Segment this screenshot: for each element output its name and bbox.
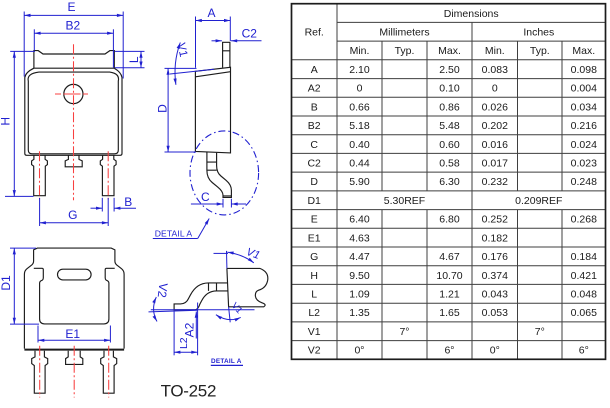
svg-text:L2: L2 bbox=[178, 337, 190, 349]
front view right lead bbox=[100, 155, 116, 195]
dimension C bbox=[191, 190, 246, 208]
svg-text:5.18: 5.18 bbox=[349, 120, 370, 132]
svg-text:7°: 7° bbox=[399, 326, 409, 338]
svg-text:1.35: 1.35 bbox=[349, 307, 370, 319]
front view left lead bbox=[32, 155, 48, 195]
svg-text:G: G bbox=[68, 208, 77, 222]
front view body inner outline bbox=[28, 72, 118, 154]
svg-text:E: E bbox=[311, 214, 318, 226]
svg-text:0.268: 0.268 bbox=[571, 214, 597, 226]
front view hole horizontal centerline bbox=[55, 93, 88, 95]
svg-text:Min.: Min. bbox=[350, 45, 370, 57]
svg-text:0.024: 0.024 bbox=[571, 139, 597, 151]
svg-text:B2: B2 bbox=[308, 120, 321, 132]
svg-text:0.098: 0.098 bbox=[571, 64, 597, 76]
svg-text:0.065: 0.065 bbox=[571, 307, 597, 319]
back view body outer outline bbox=[24, 248, 124, 349]
svg-text:5.48: 5.48 bbox=[439, 120, 460, 132]
svg-text:1.65: 1.65 bbox=[439, 307, 460, 319]
svg-text:TO-252: TO-252 bbox=[161, 381, 217, 400]
svg-text:Ref.: Ref. bbox=[305, 27, 324, 39]
svg-text:Min.: Min. bbox=[485, 45, 505, 57]
svg-text:L: L bbox=[127, 56, 141, 63]
svg-text:D1: D1 bbox=[307, 195, 321, 207]
svg-text:5.90: 5.90 bbox=[349, 176, 370, 188]
small DETAIL A label bbox=[211, 358, 243, 366]
dimension B2 bbox=[34, 18, 113, 68]
svg-text:A2: A2 bbox=[308, 83, 321, 95]
svg-text:L: L bbox=[311, 289, 317, 301]
svg-text:DETAIL A: DETAIL A bbox=[155, 229, 193, 239]
svg-text:C2: C2 bbox=[242, 27, 258, 41]
back view bottom edge bbox=[24, 349, 124, 351]
back view left lead bbox=[32, 351, 48, 393]
front view left lead centerline bbox=[39, 151, 41, 199]
svg-text:0.252: 0.252 bbox=[482, 214, 508, 226]
svg-text:0.053: 0.053 bbox=[482, 307, 508, 319]
svg-text:V1: V1 bbox=[308, 326, 321, 338]
back view left lead centerline bbox=[39, 346, 41, 398]
svg-text:A: A bbox=[207, 6, 215, 20]
svg-text:0: 0 bbox=[357, 83, 363, 95]
svg-text:Max.: Max. bbox=[572, 45, 595, 57]
svg-text:0.026: 0.026 bbox=[482, 101, 508, 113]
svg-text:0.017: 0.017 bbox=[482, 158, 508, 170]
back view right lead bbox=[101, 351, 117, 393]
detail seating plane line bbox=[151, 309, 255, 311]
svg-text:D: D bbox=[310, 176, 318, 188]
dimension H bbox=[0, 51, 35, 196]
svg-text:6°: 6° bbox=[444, 345, 454, 357]
back view center lead stub bbox=[66, 351, 83, 365]
svg-text:E1: E1 bbox=[65, 327, 80, 341]
dimension G bbox=[40, 198, 109, 226]
svg-text:C: C bbox=[201, 190, 210, 204]
svg-text:0.048: 0.048 bbox=[571, 289, 597, 301]
svg-text:0.40: 0.40 bbox=[349, 139, 370, 151]
svg-text:0.043: 0.043 bbox=[482, 289, 508, 301]
svg-text:Typ.: Typ. bbox=[395, 45, 415, 57]
svg-text:0.44: 0.44 bbox=[349, 158, 370, 170]
svg-text:Inches: Inches bbox=[523, 27, 554, 39]
svg-text:0.023: 0.023 bbox=[571, 158, 597, 170]
svg-text:V1: V1 bbox=[245, 246, 262, 262]
svg-text:0°: 0° bbox=[354, 345, 364, 357]
angle dimension V1 bottom bbox=[216, 300, 245, 322]
svg-text:G: G bbox=[310, 251, 318, 263]
back view center lead centerline bbox=[73, 346, 75, 398]
svg-text:4.47: 4.47 bbox=[349, 251, 370, 263]
svg-text:0.248: 0.248 bbox=[571, 176, 597, 188]
svg-text:L2: L2 bbox=[308, 307, 320, 319]
dimension B bbox=[91, 195, 137, 212]
svg-text:0.66: 0.66 bbox=[349, 101, 370, 113]
svg-text:0.016: 0.016 bbox=[482, 139, 508, 151]
svg-text:6.80: 6.80 bbox=[439, 214, 460, 226]
dimension E bbox=[24, 0, 123, 78]
svg-text:2.10: 2.10 bbox=[349, 64, 370, 76]
svg-text:0.034: 0.034 bbox=[571, 101, 597, 113]
svg-text:7°: 7° bbox=[535, 326, 545, 338]
svg-text:DETAIL A: DETAIL A bbox=[211, 358, 242, 365]
svg-text:0.182: 0.182 bbox=[482, 232, 508, 244]
side view lead bbox=[207, 152, 232, 198]
svg-text:0.176: 0.176 bbox=[482, 251, 508, 263]
svg-text:4.63: 4.63 bbox=[349, 232, 370, 244]
side view body outline bbox=[195, 67, 230, 153]
front view mounting hole bbox=[64, 84, 83, 103]
svg-text:6.40: 6.40 bbox=[349, 214, 370, 226]
svg-text:0.60: 0.60 bbox=[439, 139, 460, 151]
svg-text:0.202: 0.202 bbox=[482, 120, 508, 132]
side view body chamfer line bbox=[195, 72, 230, 77]
svg-text:A: A bbox=[311, 64, 318, 76]
front view center lead stub bbox=[65, 155, 82, 167]
detail lead outline bbox=[174, 283, 228, 310]
svg-text:6.30: 6.30 bbox=[439, 176, 460, 188]
detail body outline bbox=[227, 268, 268, 306]
svg-text:1.21: 1.21 bbox=[439, 289, 460, 301]
svg-text:Max.: Max. bbox=[438, 45, 461, 57]
svg-text:10.70: 10.70 bbox=[436, 270, 462, 282]
svg-text:6°: 6° bbox=[579, 345, 589, 357]
svg-text:2.50: 2.50 bbox=[439, 64, 460, 76]
angle dimension V1 side view bbox=[170, 42, 214, 85]
svg-text:B2: B2 bbox=[66, 18, 81, 32]
svg-text:Typ.: Typ. bbox=[530, 45, 550, 57]
detail A ellipse bbox=[190, 131, 259, 215]
svg-text:0.58: 0.58 bbox=[439, 158, 460, 170]
back view right lead centerline bbox=[108, 346, 110, 398]
svg-text:V2: V2 bbox=[308, 345, 321, 357]
dimensions table grid bbox=[292, 4, 606, 360]
svg-text:5.30REF: 5.30REF bbox=[384, 195, 425, 207]
svg-text:0.216: 0.216 bbox=[571, 120, 597, 132]
side view tab outline bbox=[223, 42, 230, 67]
svg-text:0.232: 0.232 bbox=[482, 176, 508, 188]
detail A leader arrow bbox=[198, 219, 209, 239]
side view lead bend ticks bbox=[207, 162, 232, 196]
svg-text:0.86: 0.86 bbox=[439, 101, 460, 113]
front view vertical centerline bbox=[73, 44, 75, 200]
back view pad contour bbox=[34, 268, 115, 324]
front view body outer outline bbox=[25, 68, 122, 155]
svg-text:0.421: 0.421 bbox=[571, 270, 597, 282]
svg-text:0.083: 0.083 bbox=[482, 64, 508, 76]
dimension L2 bbox=[174, 303, 198, 356]
svg-text:0°: 0° bbox=[490, 345, 500, 357]
svg-text:D: D bbox=[155, 104, 169, 113]
front view tab outline bbox=[34, 51, 114, 68]
svg-text:0.004: 0.004 bbox=[571, 83, 597, 95]
svg-text:V2: V2 bbox=[155, 282, 171, 299]
DETAIL A label bbox=[153, 229, 198, 239]
dimensions table text bbox=[305, 8, 598, 357]
svg-text:0.184: 0.184 bbox=[571, 251, 597, 263]
svg-text:C2: C2 bbox=[307, 158, 321, 170]
detail lead bend ticks bbox=[209, 283, 217, 291]
dimension A bbox=[196, 6, 231, 68]
svg-text:4.67: 4.67 bbox=[439, 251, 460, 263]
svg-text:0: 0 bbox=[492, 83, 498, 95]
svg-text:0.209REF: 0.209REF bbox=[515, 195, 562, 207]
angle dimension V1 top bbox=[214, 246, 262, 268]
svg-text:A2: A2 bbox=[183, 322, 197, 337]
svg-text:Millimeters: Millimeters bbox=[379, 27, 429, 39]
dimension D1 bbox=[0, 248, 39, 324]
dimension C2 bbox=[212, 27, 262, 41]
svg-text:V1: V1 bbox=[230, 300, 245, 315]
svg-text:1.09: 1.09 bbox=[349, 289, 370, 301]
angle dimension V2 bbox=[149, 282, 198, 321]
dimension D bbox=[155, 68, 196, 152]
dimension A2 bbox=[183, 312, 197, 339]
svg-text:E: E bbox=[67, 0, 75, 14]
svg-text:E1: E1 bbox=[308, 232, 321, 244]
svg-text:B: B bbox=[124, 195, 132, 209]
svg-text:Dimensions: Dimensions bbox=[444, 8, 499, 20]
dimension L bbox=[115, 51, 145, 67]
front view right lead centerline bbox=[107, 151, 109, 199]
svg-text:0.374: 0.374 bbox=[482, 270, 508, 282]
svg-text:9.50: 9.50 bbox=[349, 270, 370, 282]
svg-text:0.10: 0.10 bbox=[439, 83, 460, 95]
svg-text:D1: D1 bbox=[0, 275, 13, 291]
svg-text:H: H bbox=[310, 270, 318, 282]
dimension E1 bbox=[38, 326, 110, 343]
back view slot bbox=[58, 269, 92, 280]
svg-text:B: B bbox=[311, 101, 318, 113]
svg-text:H: H bbox=[0, 117, 13, 126]
svg-text:C: C bbox=[310, 139, 318, 151]
